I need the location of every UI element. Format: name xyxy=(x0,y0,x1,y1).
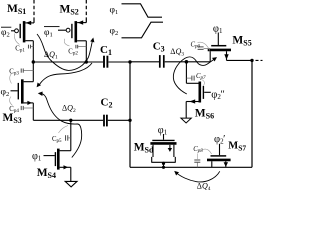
wire MS1 source to node A xyxy=(32,41,34,62)
transistor MS1 gate label phi2-bar xyxy=(1,27,11,38)
label dQ2 xyxy=(62,104,76,114)
transistor MS6 xyxy=(186,82,211,104)
node A junction dot xyxy=(32,60,35,63)
node B junction dot xyxy=(85,60,88,63)
transistor MS4 xyxy=(44,149,71,170)
right rail wire xyxy=(251,60,253,167)
capacitor C2 label xyxy=(101,96,113,109)
charge injection arrow dQ2 from MS3 to MS4 xyxy=(38,92,82,158)
capacitor C3 label xyxy=(153,41,165,54)
wire summing node to MS6 drain xyxy=(185,62,187,84)
wire MSd tap to bottom rail xyxy=(163,162,165,167)
capacitor Cp8 xyxy=(193,146,211,167)
output node junction dot xyxy=(250,59,253,62)
label phi2'' of MS6 xyxy=(211,89,224,101)
label dQ4 xyxy=(197,182,211,192)
wire C2 row from MS3 xyxy=(33,119,103,121)
capacitor C1 label xyxy=(100,44,112,57)
transistor MSd label xyxy=(134,142,154,155)
svg-text:φ2′: φ2′ xyxy=(214,134,225,146)
transistor MS7 label xyxy=(228,140,246,152)
transistor MS4 label xyxy=(37,167,56,180)
label dQ1 xyxy=(44,50,58,60)
left rail junction dot top xyxy=(128,60,131,63)
transistor MS1 label xyxy=(7,3,26,16)
capacitor Cp1 xyxy=(14,34,33,54)
wire MS4 drain up to C2 row xyxy=(70,120,72,150)
capacitor Cp6 xyxy=(191,42,211,51)
capacitor C1 xyxy=(104,56,107,68)
label phi1 of MS5 xyxy=(213,23,223,35)
capacitor Cp7 xyxy=(186,73,206,86)
wire MS4 source to ground xyxy=(70,167,72,181)
wire C3 to summing node xyxy=(165,61,211,63)
capacitor Cp5 xyxy=(52,126,71,145)
transistor MS3 xyxy=(11,79,34,105)
summing node junction dot xyxy=(185,60,189,64)
charge injection arrow dQ1 from MS1 to MS2 xyxy=(37,34,94,70)
ground of MS4 xyxy=(65,181,77,187)
wire MS6 source to ground xyxy=(185,102,187,119)
transistor MS2 dashed clock input xyxy=(85,0,87,23)
label phi1 of MS4 xyxy=(32,151,42,163)
left rail wire xyxy=(129,62,131,168)
junction dot MS4 drain on C2 row xyxy=(69,119,72,122)
clock waveform phi1 trace xyxy=(122,4,163,17)
transistor MS5 label xyxy=(232,34,251,47)
clock waveform phi2 trace xyxy=(122,22,164,38)
wire node A to MS3 drain xyxy=(32,62,34,82)
wire C2 to left rail xyxy=(108,119,130,121)
junction dot MSd tray xyxy=(162,162,165,165)
charge injection arrow dQ3 around summing node xyxy=(173,57,217,94)
left rail junction dot middle xyxy=(128,119,131,122)
capacitor Cp4 xyxy=(9,97,33,115)
transistor MS1 dashed clock input xyxy=(33,0,35,23)
capacitor Cp3 xyxy=(9,69,33,84)
transistor MS5 xyxy=(208,33,231,62)
transistor MS6 label xyxy=(195,107,214,120)
label dQ3 xyxy=(170,47,184,57)
transistor MS3 label xyxy=(3,112,22,125)
capacitor Cp2 xyxy=(64,39,86,57)
capacitor C3 xyxy=(160,55,164,68)
transistor MSd xyxy=(150,134,176,162)
charge injection arrow dQ4 from MS7 to MSd xyxy=(174,171,220,182)
ground of MS6 xyxy=(181,118,191,123)
label phi2' of MS7 xyxy=(214,134,225,146)
wire MS5 drain to output node xyxy=(227,59,253,61)
clock waveform phi1 label xyxy=(110,6,119,17)
charge injection arrow from MS2 into MS3 xyxy=(37,63,92,87)
label phi2 of MS3 xyxy=(1,88,10,99)
wire MS3 source down to C2 row xyxy=(32,103,34,120)
transistor MS1 xyxy=(11,21,34,43)
wire left rail to C3 xyxy=(130,61,159,63)
wire MS2 source to node B xyxy=(85,41,87,62)
wire top row to C1 xyxy=(33,61,103,63)
capacitor C2 xyxy=(104,115,107,127)
wire C1 to left rail xyxy=(108,61,130,63)
dashed output wire xyxy=(256,59,263,61)
transistor MS7 xyxy=(207,144,231,168)
transistor MS2 label xyxy=(60,3,79,16)
label phi1 of MSd xyxy=(158,125,168,137)
clock waveform phi2 label xyxy=(110,27,119,38)
transistor MS2 xyxy=(58,20,86,42)
bottom rail wire xyxy=(130,166,252,168)
transistor MS2 gate label phi1-bar xyxy=(44,27,60,39)
junction dot MSd on bottom rail xyxy=(162,166,165,169)
